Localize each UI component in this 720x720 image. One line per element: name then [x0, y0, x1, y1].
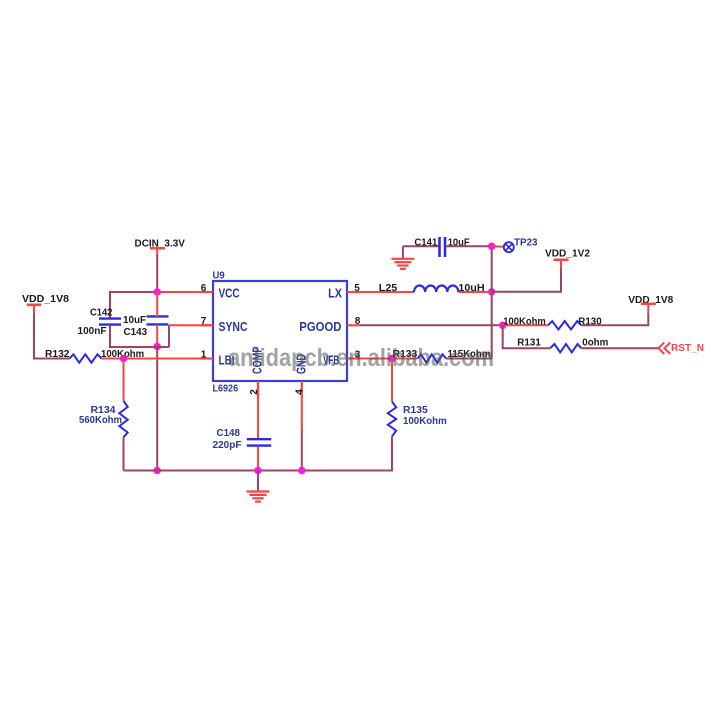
capacitor C142 — [78, 306, 122, 337]
svg-text:PGOOD: PGOOD — [299, 319, 341, 334]
pin 3 stub — [347, 357, 360, 359]
pin 1 stub — [201, 357, 214, 359]
wire GND pin 4 down to rail — [301, 397, 303, 430]
pin 6 stub — [201, 291, 214, 293]
pin 2 stub — [257, 381, 259, 398]
svg-text:RST_N: RST_N — [671, 342, 704, 354]
svg-text:R132: R132 — [45, 348, 70, 360]
svg-text:R131: R131 — [517, 337, 541, 349]
svg-text:100Kohm: 100Kohm — [503, 315, 545, 327]
wire ground to C141 — [403, 245, 439, 247]
svg-text:1: 1 — [201, 349, 207, 360]
wire C143 top branch — [156, 292, 158, 317]
svg-text:L25: L25 — [379, 282, 398, 294]
svg-text:220pF: 220pF — [213, 439, 243, 451]
svg-text:2: 2 — [249, 389, 260, 395]
svg-text:7: 7 — [201, 316, 207, 327]
capacitor C148 — [213, 427, 272, 451]
node junction VCC — [153, 288, 161, 296]
power flag VDD_1V2 — [545, 248, 590, 260]
resistor R133 — [393, 348, 491, 363]
resistor R132 — [45, 348, 144, 363]
wire VCC node horizontal left — [110, 291, 157, 293]
ground symbol at C141 — [391, 246, 414, 268]
wire junction down to R131 — [503, 325, 551, 348]
capacitor C143 — [123, 314, 169, 338]
capacitor C141 — [414, 237, 470, 257]
svg-text:0ohm: 0ohm — [582, 337, 608, 349]
power flag VDD_1V8 left — [22, 293, 69, 305]
node junction VFB net — [388, 355, 396, 363]
wire bottom ground rail — [124, 470, 394, 472]
pin 4 stub — [301, 381, 303, 398]
wire COMP pin down to C148 — [257, 397, 259, 439]
svg-text:6: 6 — [201, 283, 207, 294]
node junction SYNC net — [153, 343, 161, 351]
wire DCIN vertical to VCC node — [156, 255, 158, 292]
node junction PGOOD net — [499, 322, 507, 330]
wire LX net vertical — [491, 246, 493, 358]
inductor L25 — [379, 282, 485, 294]
svg-text:TP23: TP23 — [514, 237, 538, 249]
wire LX pin to L25 — [360, 291, 414, 293]
svg-text:5: 5 — [354, 283, 360, 294]
wire VFB pin to R133 — [360, 358, 418, 360]
pin 8 stub — [347, 324, 360, 326]
wire PGOOD pin to junction — [360, 324, 503, 326]
wire SYNC to pin 7 — [169, 324, 213, 326]
wire SYNC bottom horizontal — [110, 346, 169, 348]
test point TP23 — [504, 237, 538, 253]
wire R132 to pin 1 — [102, 358, 214, 360]
svg-text:anlidapcb.en.alibaba.com: anlidapcb.en.alibaba.com — [228, 344, 494, 372]
wire TP node to TP23 — [492, 245, 504, 248]
resistor R131 — [517, 337, 608, 353]
op-amp U9 chip body — [213, 269, 348, 394]
wire C143 bottom branch — [156, 325, 158, 347]
wire VFB node down to R135 — [391, 359, 393, 402]
off-page connector RST_N — [658, 342, 704, 354]
node junction rail at GND pin — [298, 467, 306, 475]
pin 5 stub — [347, 291, 360, 293]
resistor R130 — [503, 315, 602, 329]
wire VDD_1V8 down — [33, 306, 35, 315]
svg-text:10uF: 10uF — [123, 314, 147, 326]
ground symbol bottom — [247, 471, 270, 502]
node junction bottom rail at x157 — [153, 467, 161, 475]
node junction rail at C148 — [254, 467, 262, 475]
resistor R135 — [388, 402, 447, 437]
wire R131 to RST_N port — [581, 347, 658, 349]
power flag VDD_1V8 right — [628, 294, 673, 306]
wire R134 to bottom rail — [123, 437, 125, 470]
svg-text:4: 4 — [294, 389, 305, 395]
svg-text:VDD_1V2: VDD_1V2 — [545, 248, 590, 260]
svg-text:VCC: VCC — [219, 286, 241, 301]
wire C141 to TP node — [446, 245, 492, 247]
power flag DCIN_3.3V — [135, 237, 185, 256]
node junction TP — [488, 243, 496, 251]
svg-text:U9: U9 — [213, 269, 225, 281]
svg-text:C148: C148 — [217, 427, 241, 439]
svg-text:560Kohm: 560Kohm — [79, 414, 122, 426]
wire R130 to VDD_1V8 flag — [581, 313, 648, 325]
svg-text:C141: C141 — [414, 237, 437, 249]
wire C148 to bottom rail — [257, 447, 259, 471]
svg-text:LX: LX — [328, 286, 342, 301]
wire long vertical GND net from SYNC node to bottom rail — [156, 347, 158, 471]
svg-text:8: 8 — [355, 316, 361, 327]
svg-text:C143: C143 — [124, 326, 148, 338]
svg-text:C142: C142 — [90, 306, 113, 318]
wire R133 to LX net vertical — [446, 358, 492, 360]
wire R135 to bottom rail corner — [392, 436, 393, 470]
wire C142 bottom branch — [109, 326, 111, 348]
wire LBI node down to R134 — [123, 359, 125, 401]
wire junction to R130 — [503, 324, 548, 326]
svg-text:SYNC: SYNC — [219, 319, 248, 334]
resistor R134 — [79, 401, 128, 437]
wire VCC node to pin 6 — [157, 291, 213, 293]
svg-text:100nF: 100nF — [78, 325, 108, 337]
svg-text:L6926: L6926 — [213, 382, 239, 394]
wire C142 top branch — [109, 291, 111, 318]
node junction LBI net — [120, 355, 128, 363]
wire L25 to LX node — [458, 291, 491, 293]
node junction LX net — [488, 288, 496, 296]
pin 7 stub — [201, 324, 214, 326]
svg-text:VDD_1V8: VDD_1V8 — [22, 293, 69, 305]
wire SYNC corner up — [168, 325, 170, 347]
wire LX node to VDD_1V2 — [492, 268, 561, 292]
svg-text:100Kohm: 100Kohm — [403, 415, 447, 427]
